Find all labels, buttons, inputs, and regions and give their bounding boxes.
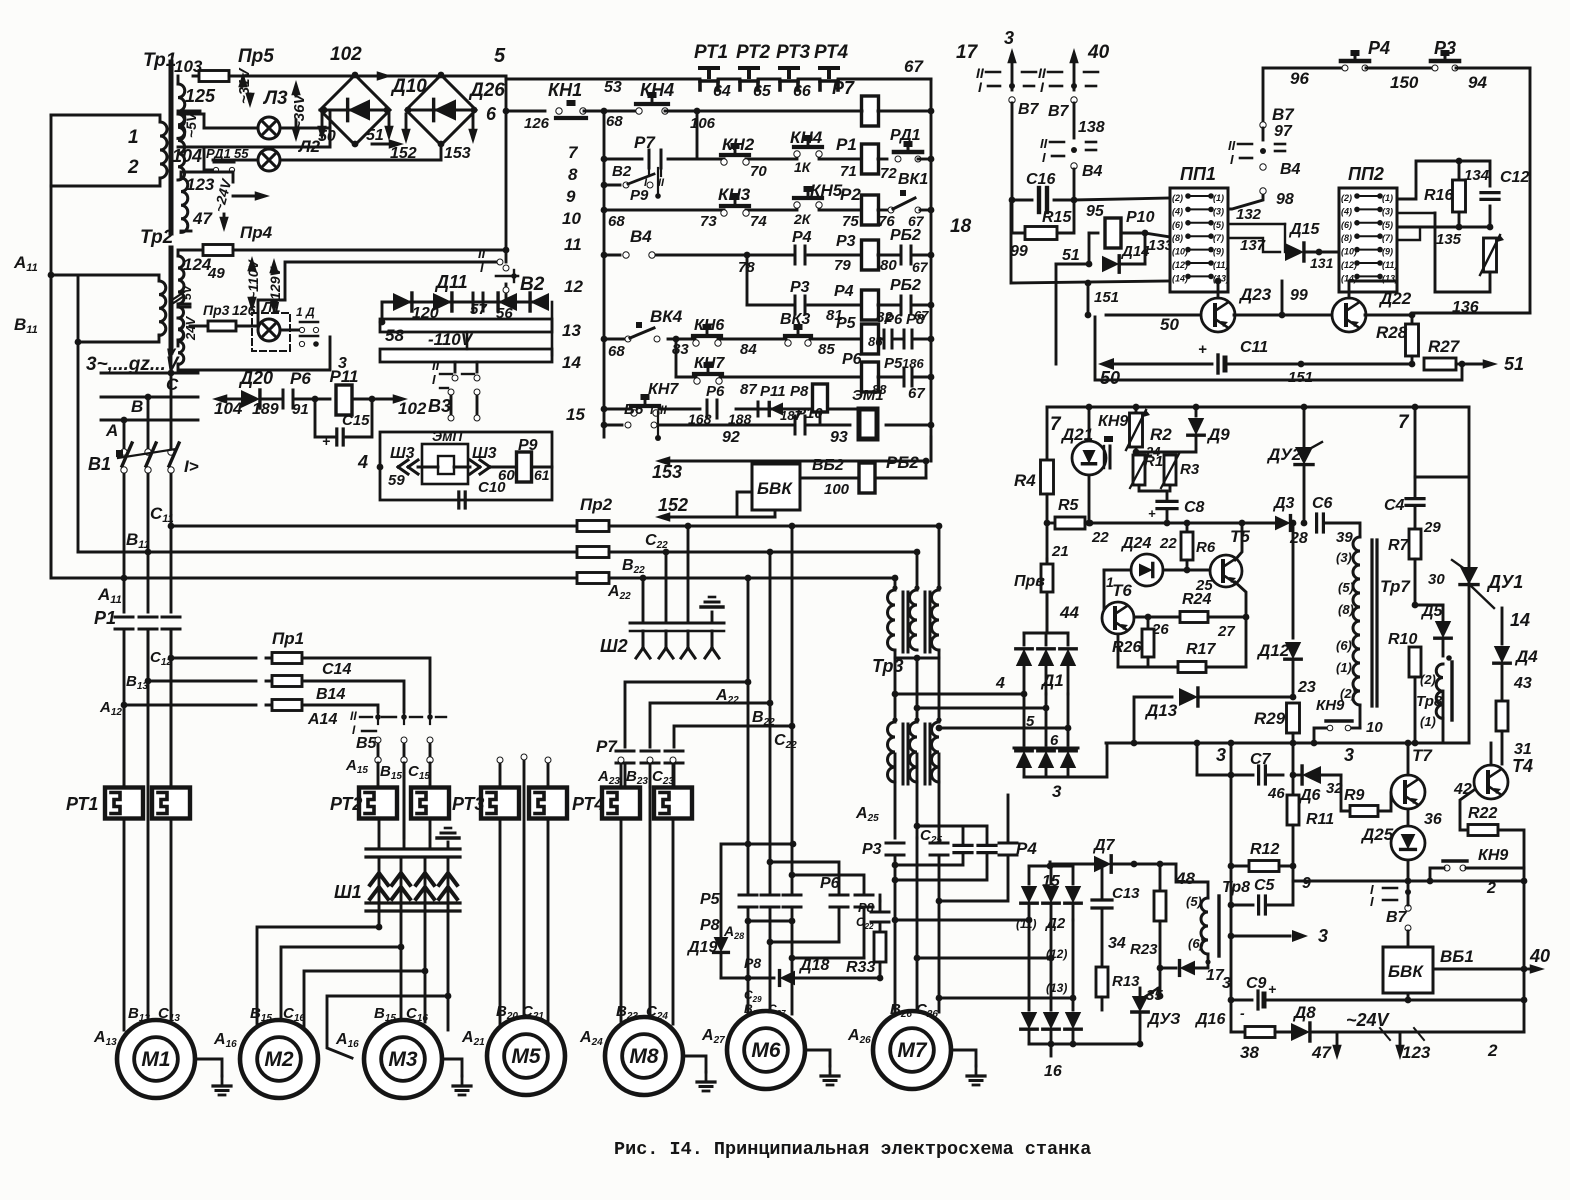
svg-text:Р11: Р11 xyxy=(760,383,786,400)
bus -110V bar1 xyxy=(380,319,552,332)
svg-text:21: 21 xyxy=(1051,543,1069,560)
svg-text:84: 84 xyxy=(740,341,757,358)
wire T5 emitter xyxy=(1235,582,1246,617)
svg-text:138: 138 xyxy=(1078,119,1105,136)
wire DU3 gate link xyxy=(1158,988,1160,996)
node B11 dot xyxy=(75,339,82,346)
lamp L1 xyxy=(258,319,280,341)
svg-text:РТ3: РТ3 xyxy=(776,42,811,63)
row KN1 xyxy=(506,110,545,113)
capacitor C9 xyxy=(1231,999,1252,1002)
terminals A15 B15 C15 xyxy=(375,757,381,763)
thermal box PT4 b xyxy=(654,788,692,819)
svg-text:1: 1 xyxy=(128,127,139,148)
motor M6 xyxy=(727,1011,805,1089)
block PP2 pins xyxy=(1354,193,1360,199)
svg-text:(10): (10) xyxy=(1341,247,1357,257)
svg-text:74: 74 xyxy=(750,213,767,230)
wire phase 4 xyxy=(895,693,1024,696)
svg-text:25: 25 xyxy=(1195,577,1213,594)
svg-text:Р10: Р10 xyxy=(1126,209,1155,226)
capacitor C4 xyxy=(1414,407,1417,497)
transformer Tp7 winding xyxy=(1353,537,1360,705)
svg-text:С15: С15 xyxy=(342,412,370,429)
wire M7 C xyxy=(938,838,941,843)
BVK box xyxy=(752,464,800,510)
svg-text:А: А xyxy=(105,421,118,440)
thyristor DU3 xyxy=(1132,996,1148,1012)
svg-text:(5): (5) xyxy=(1382,220,1393,230)
bus ladder right xyxy=(930,79,933,461)
svg-text:24: 24 xyxy=(1145,444,1161,459)
svg-text:Р5: Р5 xyxy=(884,355,903,372)
row7 wire xyxy=(604,158,642,161)
switch 17-3 arrow xyxy=(1011,62,1014,90)
transformer Tp2 primary xyxy=(158,275,161,281)
svg-text:39: 39 xyxy=(1336,529,1353,546)
svg-text:125: 125 xyxy=(185,86,216,106)
wire 95 to PP1 xyxy=(1074,198,1170,200)
wire D23 base xyxy=(1217,281,1220,298)
ground M3 xyxy=(442,1059,462,1076)
row13 wire xyxy=(604,338,624,341)
wire 110V line xyxy=(233,249,506,252)
svg-text:51: 51 xyxy=(366,127,384,144)
capacitor C16 xyxy=(1012,199,1032,202)
label B4 s97 xyxy=(1260,164,1266,170)
switch 17 dashes xyxy=(986,71,1000,74)
capacitor C11 xyxy=(1190,363,1212,366)
label ~5V xyxy=(183,111,199,138)
wire D23-D22 xyxy=(1234,314,1334,317)
bus C22 xyxy=(609,525,939,528)
contact P6 xyxy=(282,390,285,408)
svg-text:Рис. I4. Принципиальная электр: Рис. I4. Принципиальная электросхема ста… xyxy=(614,1139,1091,1160)
row14 wire xyxy=(676,376,696,379)
resistor R10 xyxy=(1409,647,1421,677)
svg-text:46: 46 xyxy=(1267,785,1285,802)
svg-text:2: 2 xyxy=(1487,1041,1498,1060)
svg-text:61: 61 xyxy=(534,467,550,483)
svg-text:Д25: Д25 xyxy=(1360,825,1394,844)
svg-text:(5): (5) xyxy=(1338,580,1354,595)
block BVK2 xyxy=(1405,925,1411,931)
svg-text:189: 189 xyxy=(252,401,279,418)
wire 22 long xyxy=(1085,522,1278,525)
wire 129V line xyxy=(258,300,285,326)
contact P1a xyxy=(115,616,133,619)
motor M2 xyxy=(240,1020,318,1098)
arrow 51 xyxy=(388,113,391,127)
phase drop C xyxy=(170,373,173,452)
svg-text:I: I xyxy=(1042,150,1046,165)
svg-text:Р6: Р6 xyxy=(820,875,840,892)
solenoid EM1 xyxy=(859,409,877,439)
wire R2 node xyxy=(1135,448,1138,452)
switch B1 pole B xyxy=(145,449,151,455)
svg-text:23: 23 xyxy=(1297,679,1316,696)
svg-text:КН4: КН4 xyxy=(640,80,674,100)
svg-text:80: 80 xyxy=(880,257,897,274)
wire M6 A down xyxy=(747,682,750,895)
svg-text:49: 49 xyxy=(207,265,225,282)
switch B5 circles xyxy=(375,737,381,743)
wire Tr1 primary top feed xyxy=(51,114,150,117)
resistor R2 xyxy=(1135,407,1138,412)
svg-text:47: 47 xyxy=(192,209,213,228)
fan wire 2 xyxy=(400,905,403,947)
transformer Tp1 core xyxy=(169,62,174,233)
svg-text:А14: А14 xyxy=(307,711,337,728)
wire D24-T5 xyxy=(1163,569,1210,572)
svg-text:Д11: Д11 xyxy=(434,272,468,292)
svg-text:86: 86 xyxy=(868,334,883,349)
contact P7 A xyxy=(616,750,634,753)
transistor D22 xyxy=(1332,298,1366,332)
wire 132 xyxy=(1228,223,1285,225)
svg-text:(6): (6) xyxy=(1341,220,1352,230)
label ~24V xyxy=(210,176,234,214)
switch 40 dashes xyxy=(1048,71,1062,74)
svg-text:106: 106 xyxy=(690,115,716,132)
svg-text:14: 14 xyxy=(562,353,581,372)
diode D7 xyxy=(1094,856,1111,872)
wire A11 corner xyxy=(50,275,53,578)
svg-text:Ш1: Ш1 xyxy=(334,882,362,902)
wire T5 collector xyxy=(1235,523,1242,560)
svg-text:Р3: Р3 xyxy=(1434,38,1456,58)
svg-text:Р4: Р4 xyxy=(1368,38,1390,58)
wire P10 left xyxy=(1088,233,1091,264)
resistor 38 xyxy=(1231,1031,1246,1034)
svg-text:18: 18 xyxy=(950,216,972,237)
arrow 6 xyxy=(472,112,475,130)
diode row D2 mids xyxy=(1028,920,1031,1010)
svg-text:9: 9 xyxy=(566,187,576,206)
svg-text:95: 95 xyxy=(1086,203,1105,220)
wire 24V out xyxy=(191,172,233,182)
svg-text:М7: М7 xyxy=(897,1039,927,1062)
coil P8 r15 xyxy=(813,384,828,412)
svg-text:ДУ1: ДУ1 xyxy=(1486,572,1523,592)
svg-text:М1: М1 xyxy=(141,1048,170,1071)
svg-text:С: С xyxy=(166,375,179,394)
svg-text:70: 70 xyxy=(750,163,767,180)
svg-text:С4: С4 xyxy=(1384,497,1405,514)
svg-text:Д14: Д14 xyxy=(1120,243,1150,260)
svg-text:В4: В4 xyxy=(630,227,652,246)
transformer Tp1 secondary 5V xyxy=(178,114,185,180)
wire box bottom xyxy=(1412,312,1530,315)
wire net 5 top bus xyxy=(229,75,506,78)
block PP1 pins xyxy=(1185,193,1191,199)
svg-text:R12: R12 xyxy=(1250,841,1279,858)
wire Tp4 out xyxy=(894,754,897,838)
resistor R3 xyxy=(1164,455,1176,485)
bridge D1 top rail xyxy=(1024,632,1068,635)
wire top h3 xyxy=(792,875,864,895)
svg-text:22: 22 xyxy=(1091,529,1109,546)
transistor T6 xyxy=(1102,602,1134,634)
thermal box PT1 b xyxy=(152,788,190,819)
svg-text:R29: R29 xyxy=(1254,709,1286,728)
svg-text:Д3: Д3 xyxy=(1272,495,1295,512)
svg-text:42: 42 xyxy=(1453,781,1472,798)
svg-text:С5: С5 xyxy=(1254,877,1276,894)
wire net5 down xyxy=(505,76,508,250)
Tp7 bottom wire xyxy=(1359,705,1362,728)
svg-text:Р9: Р9 xyxy=(630,187,649,204)
svg-text:В7: В7 xyxy=(1048,103,1070,120)
resistor R12 xyxy=(1249,861,1279,872)
thermal box PT3 b xyxy=(529,788,567,819)
svg-text:Ш3: Ш3 xyxy=(390,445,415,462)
svg-text:51: 51 xyxy=(1504,354,1524,374)
svg-text:(13): (13) xyxy=(1046,981,1067,995)
svg-text:75: 75 xyxy=(842,213,859,230)
connector Sh1 xyxy=(366,847,460,850)
wire D25 row xyxy=(1293,866,1408,881)
node 4 dot xyxy=(377,464,384,471)
svg-text:Р8: Р8 xyxy=(700,917,720,934)
thermal box PT1 a xyxy=(105,788,143,819)
svg-text:9: 9 xyxy=(1302,875,1311,892)
svg-text:С6: С6 xyxy=(1312,495,1333,512)
wire bars right link xyxy=(551,302,554,355)
svg-text:Р5: Р5 xyxy=(836,315,857,332)
svg-text:Т6: Т6 xyxy=(1112,581,1132,600)
branch P7 A xyxy=(625,682,748,747)
svg-text:М2: М2 xyxy=(264,1048,293,1071)
phase drop B xyxy=(147,397,150,452)
phase line B xyxy=(101,396,198,399)
contact P1b xyxy=(139,616,157,619)
svg-text:28: 28 xyxy=(1289,530,1308,547)
svg-text:Д2: Д2 xyxy=(1044,915,1066,932)
svg-text:В4: В4 xyxy=(1280,161,1301,178)
svg-text:100: 100 xyxy=(824,481,850,498)
block PP1 xyxy=(1170,188,1228,292)
resistor R33 xyxy=(879,922,882,932)
svg-text:R10: R10 xyxy=(1388,631,1417,648)
lamp L2 xyxy=(213,159,258,162)
svg-text:(11): (11) xyxy=(1213,260,1228,270)
transformer Tp2 winding 124 xyxy=(178,256,184,304)
fuse Prv xyxy=(1046,523,1049,560)
wire P1 down xyxy=(123,629,126,787)
svg-text:91: 91 xyxy=(292,401,309,418)
wire T6 emitter xyxy=(1117,634,1120,667)
svg-text:Пр2: Пр2 xyxy=(580,495,613,514)
svg-text:Д8: Д8 xyxy=(1292,1003,1316,1022)
svg-text:ЭМ1: ЭМ1 xyxy=(852,387,884,404)
svg-text:71: 71 xyxy=(840,163,857,180)
svg-text:Д5: Д5 xyxy=(1420,603,1444,620)
fuse Pr2 B xyxy=(571,551,615,554)
svg-text:7: 7 xyxy=(568,143,579,162)
resistor R28 xyxy=(1411,315,1414,325)
wire 9 row xyxy=(1231,865,1250,868)
wire bridge bottoms xyxy=(440,144,443,160)
svg-text:17: 17 xyxy=(1206,967,1225,984)
transformer Tp2 core xyxy=(169,248,174,352)
svg-text:(5): (5) xyxy=(1186,894,1202,909)
bridge D1 diodes up xyxy=(1023,633,1026,645)
contact P3 top xyxy=(1366,67,1434,70)
svg-text:87: 87 xyxy=(740,381,757,398)
label B4 s138 xyxy=(1071,163,1077,169)
svg-text:Р4: Р4 xyxy=(834,283,854,300)
svg-text:Р1: Р1 xyxy=(836,135,857,154)
resistor R23 xyxy=(1159,864,1162,892)
svg-text:КН7: КН7 xyxy=(648,381,679,398)
wire 99 vert xyxy=(1281,281,1284,315)
wire 151 return xyxy=(1095,317,1462,380)
svg-text:Д26: Д26 xyxy=(468,80,505,101)
border right box xyxy=(1529,68,1532,313)
svg-text:Д18: Д18 xyxy=(798,957,829,974)
svg-text:R27: R27 xyxy=(1428,337,1461,356)
svg-text:ВБ2: ВБ2 xyxy=(812,457,844,474)
svg-text:1К: 1К xyxy=(794,159,812,175)
svg-text:135: 135 xyxy=(1436,231,1462,248)
svg-text:R2: R2 xyxy=(1150,425,1172,444)
bridge D26 xyxy=(406,75,476,145)
svg-text:15: 15 xyxy=(566,405,585,424)
svg-text:51: 51 xyxy=(1062,247,1080,264)
wire M5 wires xyxy=(499,819,502,1025)
diode D9 xyxy=(1195,407,1198,416)
wire 2 right border xyxy=(1523,881,1526,1032)
wire bridge tops xyxy=(229,75,441,78)
svg-text:(2): (2) xyxy=(1172,193,1183,203)
svg-text:ВК1: ВК1 xyxy=(898,171,928,188)
diode D5 xyxy=(1415,604,1443,607)
wire 3 line C7 xyxy=(1230,743,1233,1032)
svg-text:3: 3 xyxy=(338,355,347,372)
svg-text:94: 94 xyxy=(1468,73,1487,92)
wire 137 xyxy=(1228,238,1280,252)
svg-text:(12): (12) xyxy=(1341,260,1357,270)
svg-text:Р3: Р3 xyxy=(862,841,882,858)
branch P7 C xyxy=(674,726,792,747)
svg-text:Тр7: Тр7 xyxy=(1380,577,1411,596)
fan wire 3 xyxy=(424,905,427,971)
svg-text:2: 2 xyxy=(127,157,139,178)
diode D20 xyxy=(241,390,260,408)
svg-text:3: 3 xyxy=(1216,745,1226,765)
svg-text:-: - xyxy=(1240,1005,1245,1021)
svg-text:4: 4 xyxy=(995,675,1005,692)
svg-text:4: 4 xyxy=(357,452,368,472)
row11 wire xyxy=(604,254,620,257)
wire mid h1 xyxy=(770,941,839,944)
wire BVK down xyxy=(774,510,777,517)
svg-text:186: 186 xyxy=(902,356,924,371)
svg-text:(7): (7) xyxy=(1382,233,1393,243)
svg-text:(1): (1) xyxy=(1382,193,1393,203)
diode D8 xyxy=(1275,1031,1290,1034)
phase line C xyxy=(101,372,198,375)
ground M8 xyxy=(683,1056,706,1072)
svg-text:(5): (5) xyxy=(1213,220,1224,230)
row12 wire xyxy=(747,304,793,307)
wire D2 net 12 xyxy=(917,957,1051,960)
svg-text:БВК: БВК xyxy=(1388,962,1424,981)
svg-text:7: 7 xyxy=(1398,412,1410,433)
svg-text:Т4: Т4 xyxy=(1512,756,1533,776)
svg-text:(10): (10) xyxy=(1172,247,1188,257)
switch B5 dashes xyxy=(360,716,372,718)
wire 151 down xyxy=(1087,283,1090,315)
svg-text:Р8: Р8 xyxy=(906,311,925,328)
resistor R26 xyxy=(1142,629,1154,657)
switch B3 xyxy=(454,362,457,372)
thermal contact PT2 xyxy=(740,66,758,70)
wire bot h xyxy=(721,977,774,980)
wire B1 down A xyxy=(123,474,126,612)
svg-text:КН1: КН1 xyxy=(548,80,582,100)
svg-text:93: 93 xyxy=(830,429,848,446)
lamp L3 xyxy=(204,127,258,130)
svg-text:В14: В14 xyxy=(316,686,345,703)
bus ladder top xyxy=(506,78,700,81)
label ~110V xyxy=(245,259,261,300)
svg-text:РТ1: РТ1 xyxy=(694,42,728,63)
switch VK1 xyxy=(878,209,888,212)
svg-text:I: I xyxy=(1230,152,1234,167)
svg-text:(6): (6) xyxy=(1172,220,1183,230)
svg-text:Д22: Д22 xyxy=(1378,289,1412,308)
svg-text:R13: R13 xyxy=(1112,973,1140,990)
wire row13-14 link xyxy=(675,339,678,377)
switch B1 pole A xyxy=(121,449,127,455)
switch 40 arrow xyxy=(1073,62,1076,90)
switch contacts near L1 xyxy=(299,327,304,332)
svg-text:М8: М8 xyxy=(629,1045,658,1068)
ground M1 xyxy=(195,1059,222,1076)
wire PP2 pin links xyxy=(1397,212,1435,214)
svg-text:Тр3: Тр3 xyxy=(872,656,904,676)
svg-text:43: 43 xyxy=(1513,675,1532,692)
diode D16 xyxy=(1180,961,1195,976)
svg-text:27: 27 xyxy=(1217,623,1235,640)
svg-text:+: + xyxy=(1148,506,1156,521)
svg-text:I>: I> xyxy=(184,457,199,476)
svg-text:Д7: Д7 xyxy=(1092,837,1116,854)
svg-text:РТ3: РТ3 xyxy=(452,794,484,814)
svg-text:РТ2: РТ2 xyxy=(330,794,362,814)
svg-text:2К: 2К xyxy=(793,211,812,227)
svg-text:104: 104 xyxy=(172,146,202,166)
node A11 dot xyxy=(48,272,55,279)
switch 40 bottom xyxy=(1071,97,1077,103)
svg-text:R23: R23 xyxy=(1130,941,1158,958)
svg-text:Д19: Д19 xyxy=(686,939,717,956)
switch B7 bot xyxy=(1383,887,1397,890)
svg-text:БВК: БВК xyxy=(757,479,793,498)
svg-text:(12): (12) xyxy=(1172,260,1188,270)
svg-text:17: 17 xyxy=(956,42,979,63)
svg-text:99: 99 xyxy=(1290,287,1308,304)
wire phase 5 xyxy=(917,707,1046,710)
ground M6 xyxy=(805,1050,830,1066)
svg-text:3: 3 xyxy=(1344,745,1354,765)
svg-text:В7: В7 xyxy=(1018,101,1040,118)
svg-text:В2: В2 xyxy=(612,163,632,180)
svg-text:152: 152 xyxy=(658,495,688,515)
phase line A xyxy=(101,419,198,422)
